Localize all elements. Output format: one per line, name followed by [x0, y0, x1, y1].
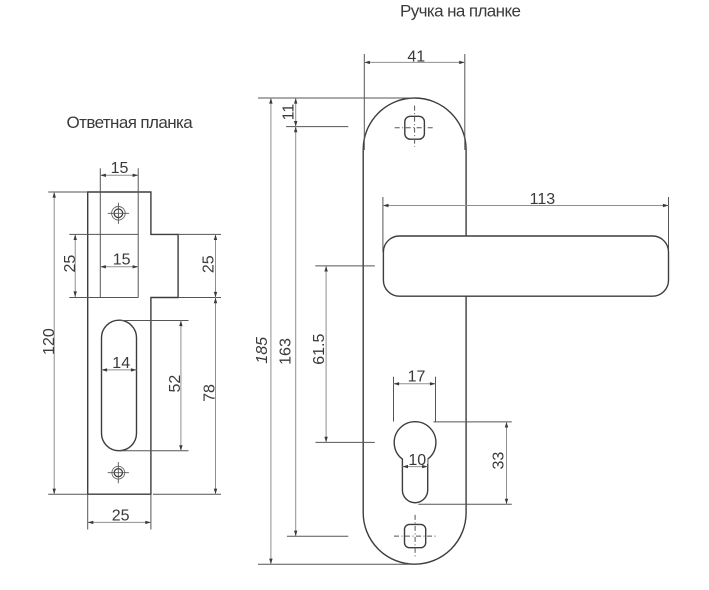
41 extension left	[363, 54, 365, 150]
dimension 11	[281, 98, 298, 127]
dimension 15 inner	[100, 251, 138, 268]
plate bottom extension line	[258, 563, 414, 565]
svg-text:14: 14	[112, 355, 130, 372]
svg-text:10: 10	[408, 452, 426, 469]
dimension 33	[490, 422, 508, 504]
handle plate outline	[363, 98, 466, 564]
svg-text:Ответная планка: Ответная планка	[67, 113, 194, 132]
svg-text:25: 25	[62, 255, 79, 273]
svg-text:61.5: 61.5	[311, 334, 328, 365]
dimension 52	[167, 321, 184, 451]
113 extension left	[382, 197, 384, 252]
dimension 185	[254, 98, 273, 564]
svg-text:52: 52	[167, 375, 184, 393]
svg-text:33: 33	[490, 452, 507, 470]
strike plate latch-box left line	[99, 168, 101, 297]
113 extension right	[668, 197, 670, 265]
bottom screw square hole	[394, 515, 436, 557]
61.5 bottom extension line (cylinder centerline)	[316, 441, 375, 443]
svg-text:120: 120	[41, 328, 58, 355]
dimension 120 left	[41, 192, 88, 494]
strike plate latch-box right line	[137, 168, 139, 297]
dimension 15 top	[100, 160, 138, 177]
163 bottom extension line	[287, 535, 348, 537]
handle lever	[383, 236, 668, 296]
33 bottom extension line	[418, 503, 512, 505]
svg-text:25: 25	[200, 255, 217, 273]
spindle square hole	[395, 106, 434, 147]
svg-text:Ручка на планке: Ручка на планке	[400, 2, 520, 21]
61.5 top extension line (handle centerline)	[315, 265, 375, 267]
41 extension right	[464, 54, 466, 150]
top screw hole target	[108, 203, 129, 224]
dimension 41	[364, 48, 465, 65]
svg-text:15: 15	[113, 251, 131, 268]
strike plate outline with side tab	[88, 192, 178, 494]
dimension 10	[402, 451, 427, 470]
cylinder keyhole	[394, 422, 436, 503]
svg-text:78: 78	[201, 384, 218, 402]
11/163 common extension line	[286, 126, 348, 128]
oval bottom extension line	[119, 450, 189, 452]
svg-text:17: 17	[408, 369, 426, 386]
dimension 25 right	[200, 234, 217, 297]
dimension 17	[394, 369, 436, 386]
dimension 163	[278, 127, 298, 537]
svg-text:25: 25	[112, 508, 130, 525]
svg-text:113: 113	[530, 191, 556, 208]
svg-text:11: 11	[281, 104, 298, 121]
oval top extension line	[119, 320, 189, 322]
bottom screw hole target	[108, 462, 129, 483]
dimension 25 left	[62, 234, 79, 297]
dimension 25 bottom	[88, 494, 151, 529]
latch box bottom edge with left extension	[69, 297, 138, 299]
33 top extension line	[433, 421, 511, 423]
dimension 113	[383, 191, 669, 208]
svg-text:15: 15	[111, 160, 129, 177]
tab top edge right extension	[178, 233, 221, 235]
dimension 61.5	[311, 266, 328, 443]
latch box top edge with left extension	[69, 233, 138, 235]
dimension 78	[201, 298, 218, 495]
tab bottom edge right extension	[178, 297, 221, 299]
oval slot	[102, 320, 137, 451]
17 extension right	[435, 377, 437, 422]
svg-text:185: 185	[254, 337, 271, 364]
svg-text:163: 163	[278, 338, 295, 365]
17 extension left	[393, 377, 395, 422]
dimension 14 oval	[102, 355, 137, 372]
plate top extension line	[258, 97, 415, 99]
svg-text:41: 41	[407, 48, 425, 65]
plate bottom edge right extension	[153, 493, 221, 495]
